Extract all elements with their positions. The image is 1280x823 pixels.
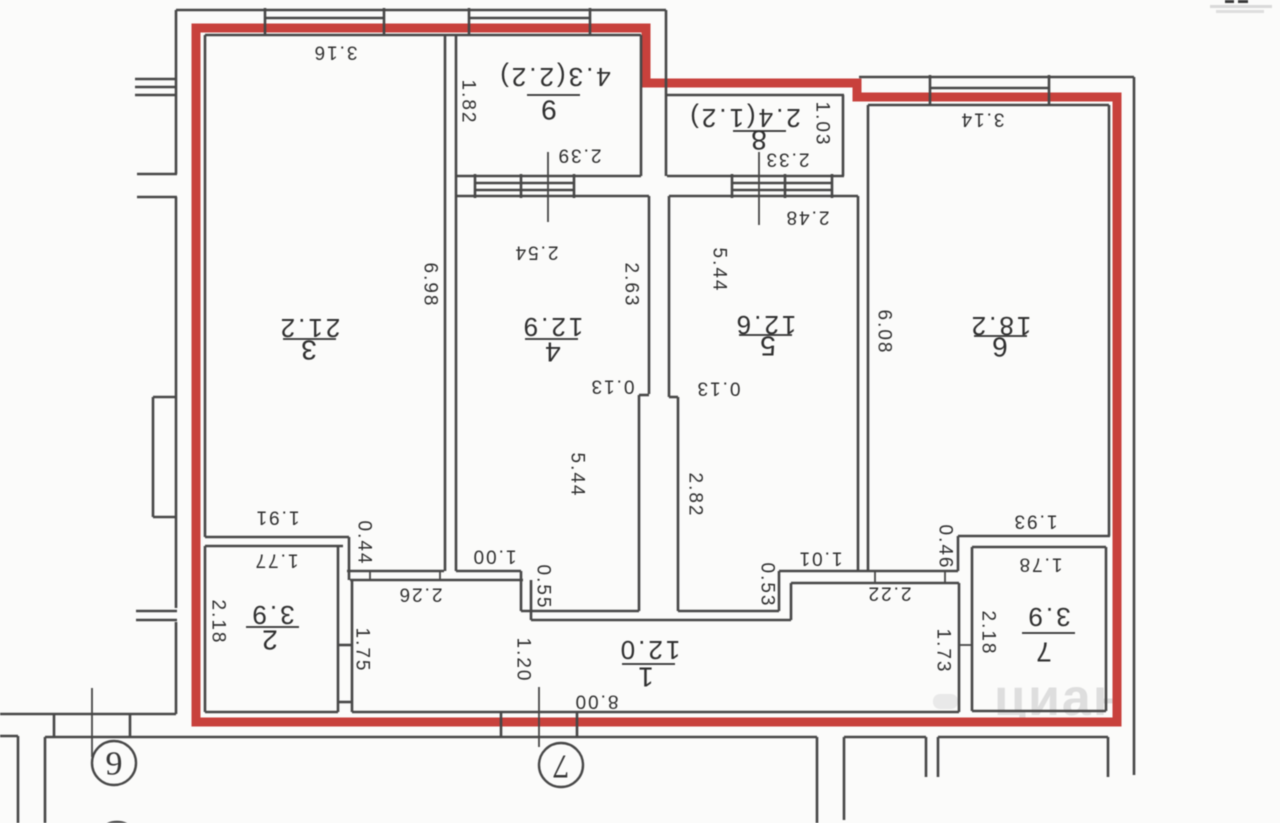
window balcony9 tick right: [589, 8, 592, 35]
balcony8 hatch line 2: [732, 189, 832, 192]
room5 left wall lower: [677, 397, 680, 611]
hall top wall room3 side: [347, 570, 444, 573]
nook left wall inner: [520, 571, 523, 611]
svg-text:0.44: 0.44: [354, 521, 375, 566]
axis circle cut at bottom edge: [94, 822, 140, 823]
svg-text:2.22: 2.22: [867, 583, 912, 604]
room4 right wall lower: [638, 395, 641, 611]
balcony8 right wall: [842, 95, 845, 176]
balcony8 hatch line 1: [732, 182, 832, 185]
outer wall left segment 2: [175, 197, 178, 608]
bottom-left wall y736 fragment: [0, 735, 18, 738]
svg-text:7: 7: [553, 748, 570, 785]
hall upper line right: [791, 582, 959, 585]
svg-text:2.63: 2.63: [621, 263, 642, 308]
room4 right wall upper: [648, 196, 651, 394]
tick x501: [500, 713, 503, 737]
room3-room4 divider right line: [455, 35, 458, 571]
svg-text:1.77: 1.77: [254, 550, 299, 571]
svg-text:6: 6: [992, 332, 1008, 363]
svg-text:0.13: 0.13: [696, 378, 741, 399]
nook bottom inner left: [521, 610, 639, 613]
svg-text:2.33: 2.33: [765, 149, 810, 170]
red apartment boundary: [196, 28, 1117, 722]
balcony8 hatch tick right: [831, 174, 834, 198]
bottom-left wall y714: [0, 713, 176, 716]
svg-text:0.13: 0.13: [590, 376, 635, 397]
svg-text:1.78: 1.78: [1018, 554, 1063, 575]
balcony8 hatch tick left: [731, 174, 734, 198]
top-right corner cut marks: [1210, 0, 1272, 13]
neighbour vertical x844: [843, 737, 846, 820]
duct jog room4 side: [639, 394, 649, 397]
tick x577: [576, 713, 579, 737]
room2 fraction bar: [246, 626, 299, 628]
svg-text:5.44: 5.44: [709, 248, 730, 293]
svg-text:2.18: 2.18: [978, 611, 999, 656]
svg-text:2.39: 2.39: [557, 145, 602, 166]
hall top lower line left: [350, 579, 523, 582]
outer wall right: [1133, 77, 1136, 775]
room7 top wall: [972, 546, 1106, 549]
duct jog room5 side: [669, 396, 678, 399]
svg-text:1.75: 1.75: [352, 628, 373, 673]
svg-text:4: 4: [545, 337, 561, 368]
axis line circle7: [538, 687, 540, 747]
balcony9 window centerline: [547, 152, 549, 222]
svg-text:6.98: 6.98: [420, 263, 441, 308]
svg-text:3.14: 3.14: [960, 109, 1005, 130]
room1 fraction bar: [622, 663, 675, 665]
room6 bottom wall: [958, 535, 1110, 538]
neighbour vertical x926: [925, 737, 928, 777]
neighbour wall below red left: [45, 736, 817, 739]
room6 left wall: [867, 105, 870, 571]
step x958 to room6: [957, 536, 960, 571]
room4 fraction bar: [525, 338, 578, 340]
outer wall top-left section: [176, 9, 666, 12]
svg-text:2.18: 2.18: [208, 600, 229, 645]
room2 top wall: [205, 545, 343, 548]
balcony8 hatch tick mid: [784, 174, 787, 198]
room2 door jamb tick upper: [338, 644, 352, 647]
room3 door jamb tick left: [369, 571, 371, 580]
balcony8 top wall: [666, 94, 844, 97]
room3 left wall: [204, 35, 207, 537]
svg-text:1.00: 1.00: [472, 546, 517, 567]
tick x130 on band: [129, 714, 132, 737]
window room6 tick left: [929, 75, 932, 105]
balcony9 hatch tick mid: [520, 174, 523, 198]
balcony floor edge balcony9: [457, 175, 641, 178]
svg-text:6.08: 6.08: [874, 310, 895, 355]
window room6 inner line: [930, 87, 1049, 90]
left wall doorway jamb lower: [137, 196, 177, 199]
room6 door jamb tick left: [874, 571, 876, 583]
room6 fraction bar: [974, 335, 1027, 337]
hall bottom wall: [352, 711, 959, 714]
room3 bottom wall: [205, 536, 349, 539]
axis line circle9: [91, 688, 93, 757]
left wall doorway jamb upper: [137, 173, 177, 176]
balcony8 window centerline: [758, 152, 760, 225]
svg-text:3.16: 3.16: [313, 42, 358, 63]
axis circle 9: [92, 741, 136, 785]
axis circle 7: [539, 743, 583, 787]
svg-text:2.82: 2.82: [685, 473, 706, 518]
room3 fraction bar: [283, 338, 336, 340]
balcony9 hatch tick right: [573, 174, 576, 198]
svg-text:2.54: 2.54: [514, 242, 559, 263]
room5 top wall: [669, 195, 858, 198]
room5 fraction bar: [739, 334, 792, 336]
room3 door jamb tick right: [439, 571, 441, 580]
balcony9 hatch tick left: [474, 174, 477, 198]
outer wall top-right section: [859, 76, 1134, 79]
svg-text:5: 5: [760, 331, 776, 362]
neighbour vertical x1108: [1107, 737, 1110, 777]
svg-text:3.9: 3.9: [1025, 602, 1070, 632]
room7 bottom wall: [972, 710, 1106, 713]
bottom-left vertical x45: [44, 737, 47, 823]
svg-text:2.26: 2.26: [398, 584, 443, 605]
balcony floor edge balcony8: [667, 175, 844, 178]
svg-text:0.53: 0.53: [757, 563, 778, 608]
room2 right wall: [337, 546, 340, 712]
watermark fragment blob: [933, 694, 958, 709]
outer wall left bump vertical: [152, 397, 155, 517]
svg-text:2.4(1.2): 2.4(1.2): [687, 103, 801, 133]
outer wall left segment 3: [175, 622, 178, 714]
left stub triple line 2: [135, 86, 176, 89]
svg-text:3: 3: [301, 335, 317, 366]
svg-text:12.0: 12.0: [618, 635, 681, 665]
svg-text:2.48: 2.48: [785, 207, 830, 228]
svg-text:8: 8: [751, 125, 767, 156]
nook bottom outer: [531, 619, 791, 622]
window balcony9 tick left: [468, 8, 471, 35]
room5-room6 divider left line: [857, 196, 860, 571]
room2 left wall: [204, 546, 207, 712]
room5 left wall upper: [668, 196, 671, 397]
outer wall left bump top: [153, 396, 176, 399]
svg-text:1: 1: [638, 662, 654, 693]
svg-text:9: 9: [541, 95, 557, 126]
room7 fraction bar: [1022, 632, 1075, 634]
svg-text:1.73: 1.73: [933, 629, 954, 674]
balcony8 fraction bar: [733, 130, 786, 132]
svg-text:2: 2: [262, 625, 278, 656]
balcony9 fraction bar: [527, 94, 580, 96]
step x349: [348, 537, 351, 580]
svg-text:1.20: 1.20: [513, 638, 534, 683]
svg-text:0.55: 0.55: [533, 565, 554, 610]
room6 top wall: [868, 104, 1109, 107]
svg-text:8.00: 8.00: [574, 691, 619, 712]
room2 door jamb tick lower: [338, 701, 352, 704]
svg-text:4.3(2.2): 4.3(2.2): [497, 62, 611, 92]
room3/balcony9 top wall: [205, 34, 641, 37]
room7 right wall: [1105, 547, 1108, 711]
neighbour wall y737 right: [938, 736, 1108, 739]
neighbour wall y737 mid: [844, 736, 926, 739]
svg-text:0.46: 0.46: [935, 525, 956, 570]
room6 door jamb tick right: [944, 571, 946, 583]
svg-text:1.93: 1.93: [1013, 511, 1058, 532]
left wall doorway2 jamb upper: [136, 610, 177, 613]
nook right wall inner: [778, 571, 781, 611]
balcony9 hatch line 2: [475, 189, 574, 192]
room4 top wall: [456, 195, 649, 198]
tick x54 on band: [53, 714, 56, 737]
svg-text:7: 7: [1036, 637, 1052, 668]
neighbour vertical x938: [937, 737, 940, 777]
svg-text:9: 9: [106, 746, 123, 783]
room7 door jamb tick: [959, 644, 972, 646]
balcony9 hatch line 1: [475, 182, 574, 185]
room3-room4 divider left line: [444, 35, 447, 571]
svg-text:1.03: 1.03: [812, 102, 833, 147]
room2 corridor-side wall: [351, 580, 354, 712]
nook right wall outer: [790, 583, 793, 620]
room2 bottom wall: [205, 711, 338, 714]
building edge x666: [665, 10, 668, 176]
room5 bottom wall: [779, 570, 958, 573]
left stub triple line 3: [135, 94, 176, 97]
nook left wall outer: [530, 580, 533, 620]
svg-text:1.82: 1.82: [458, 80, 479, 125]
window balcony9 inner line: [469, 17, 590, 20]
balcony9 right wall: [640, 35, 643, 176]
window room3 tick left: [264, 8, 267, 35]
svg-text:1.01: 1.01: [798, 548, 843, 569]
left stub triple line 1: [135, 78, 176, 81]
window room6 tick right: [1048, 75, 1051, 105]
room7 left wall: [971, 547, 974, 711]
hall top wall room4 side: [456, 570, 521, 573]
svg-text:5.44: 5.44: [567, 453, 588, 498]
outer wall left segment 1: [175, 10, 178, 174]
window room3 tick right: [383, 8, 386, 35]
outer wall left bump bottom: [153, 516, 176, 519]
neighbour vertical x817: [816, 737, 819, 823]
room6 right wall: [1108, 105, 1111, 536]
bottom-left vertical x18: [17, 736, 20, 823]
svg-text:1.91: 1.91: [255, 507, 300, 528]
hall right wall: [958, 583, 961, 712]
window room3 inner line: [265, 17, 384, 20]
nook bottom inner right: [678, 610, 779, 613]
left wall doorway2 jamb lower: [136, 619, 177, 622]
